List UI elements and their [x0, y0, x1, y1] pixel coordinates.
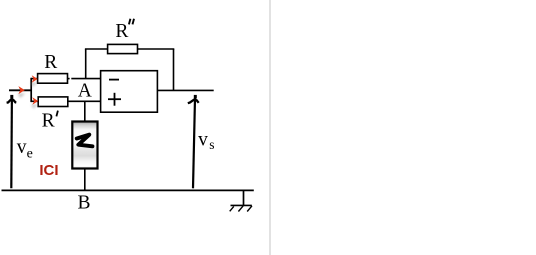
label R': [42, 111, 58, 132]
svg-text:ICI: ICI: [39, 162, 58, 179]
wire ICI to ground rail: [84, 169, 86, 191]
op-amp U1 body: [101, 71, 158, 113]
wire node A down to ICI component: [84, 101, 86, 121]
ground symbol: [230, 190, 252, 211]
svg-text:R: R: [115, 21, 128, 42]
svg-text:e: e: [27, 146, 33, 161]
wire R to op-amp inverting input: [68, 78, 101, 80]
wire feedback top right: [138, 48, 175, 50]
arrow vs: [188, 95, 199, 188]
svg-text:s: s: [209, 137, 214, 152]
wire input branch vertical: [30, 78, 32, 102]
red current arrow into R: [30, 75, 37, 86]
wire op-amp output: [157, 89, 213, 91]
label ve: [17, 137, 33, 161]
op-amp inverting input marker: [109, 79, 119, 81]
wire feedback left vertical: [85, 49, 87, 79]
component ICI Z glyph: [77, 135, 93, 147]
svg-text:R: R: [42, 111, 55, 132]
red current arrow into R': [31, 97, 38, 108]
wire input from ve source: [9, 89, 31, 91]
svg-text:v: v: [17, 137, 27, 158]
svg-text:v: v: [198, 129, 208, 150]
op-amp non-inverting input marker: [108, 93, 121, 106]
label R'': [115, 19, 134, 42]
component ICI box (nonlinear resistor): [72, 122, 97, 169]
wire feedback top left: [85, 48, 108, 50]
wire feedback right vertical: [173, 49, 175, 90]
wire R' to op-amp non-inverting input: [68, 100, 101, 102]
svg-text:A: A: [78, 81, 92, 102]
wire to resistor R': [31, 100, 38, 102]
resistor R: [38, 74, 68, 84]
wire to resistor R: [31, 78, 37, 80]
svg-text:R: R: [44, 52, 57, 73]
red current arrow on input wire: [18, 86, 26, 98]
resistor R': [38, 97, 68, 107]
label vs: [198, 129, 214, 152]
ground rail: [2, 189, 254, 191]
svg-text:B: B: [78, 193, 91, 214]
resistor R'': [108, 44, 138, 53]
arrow ve: [7, 95, 17, 188]
